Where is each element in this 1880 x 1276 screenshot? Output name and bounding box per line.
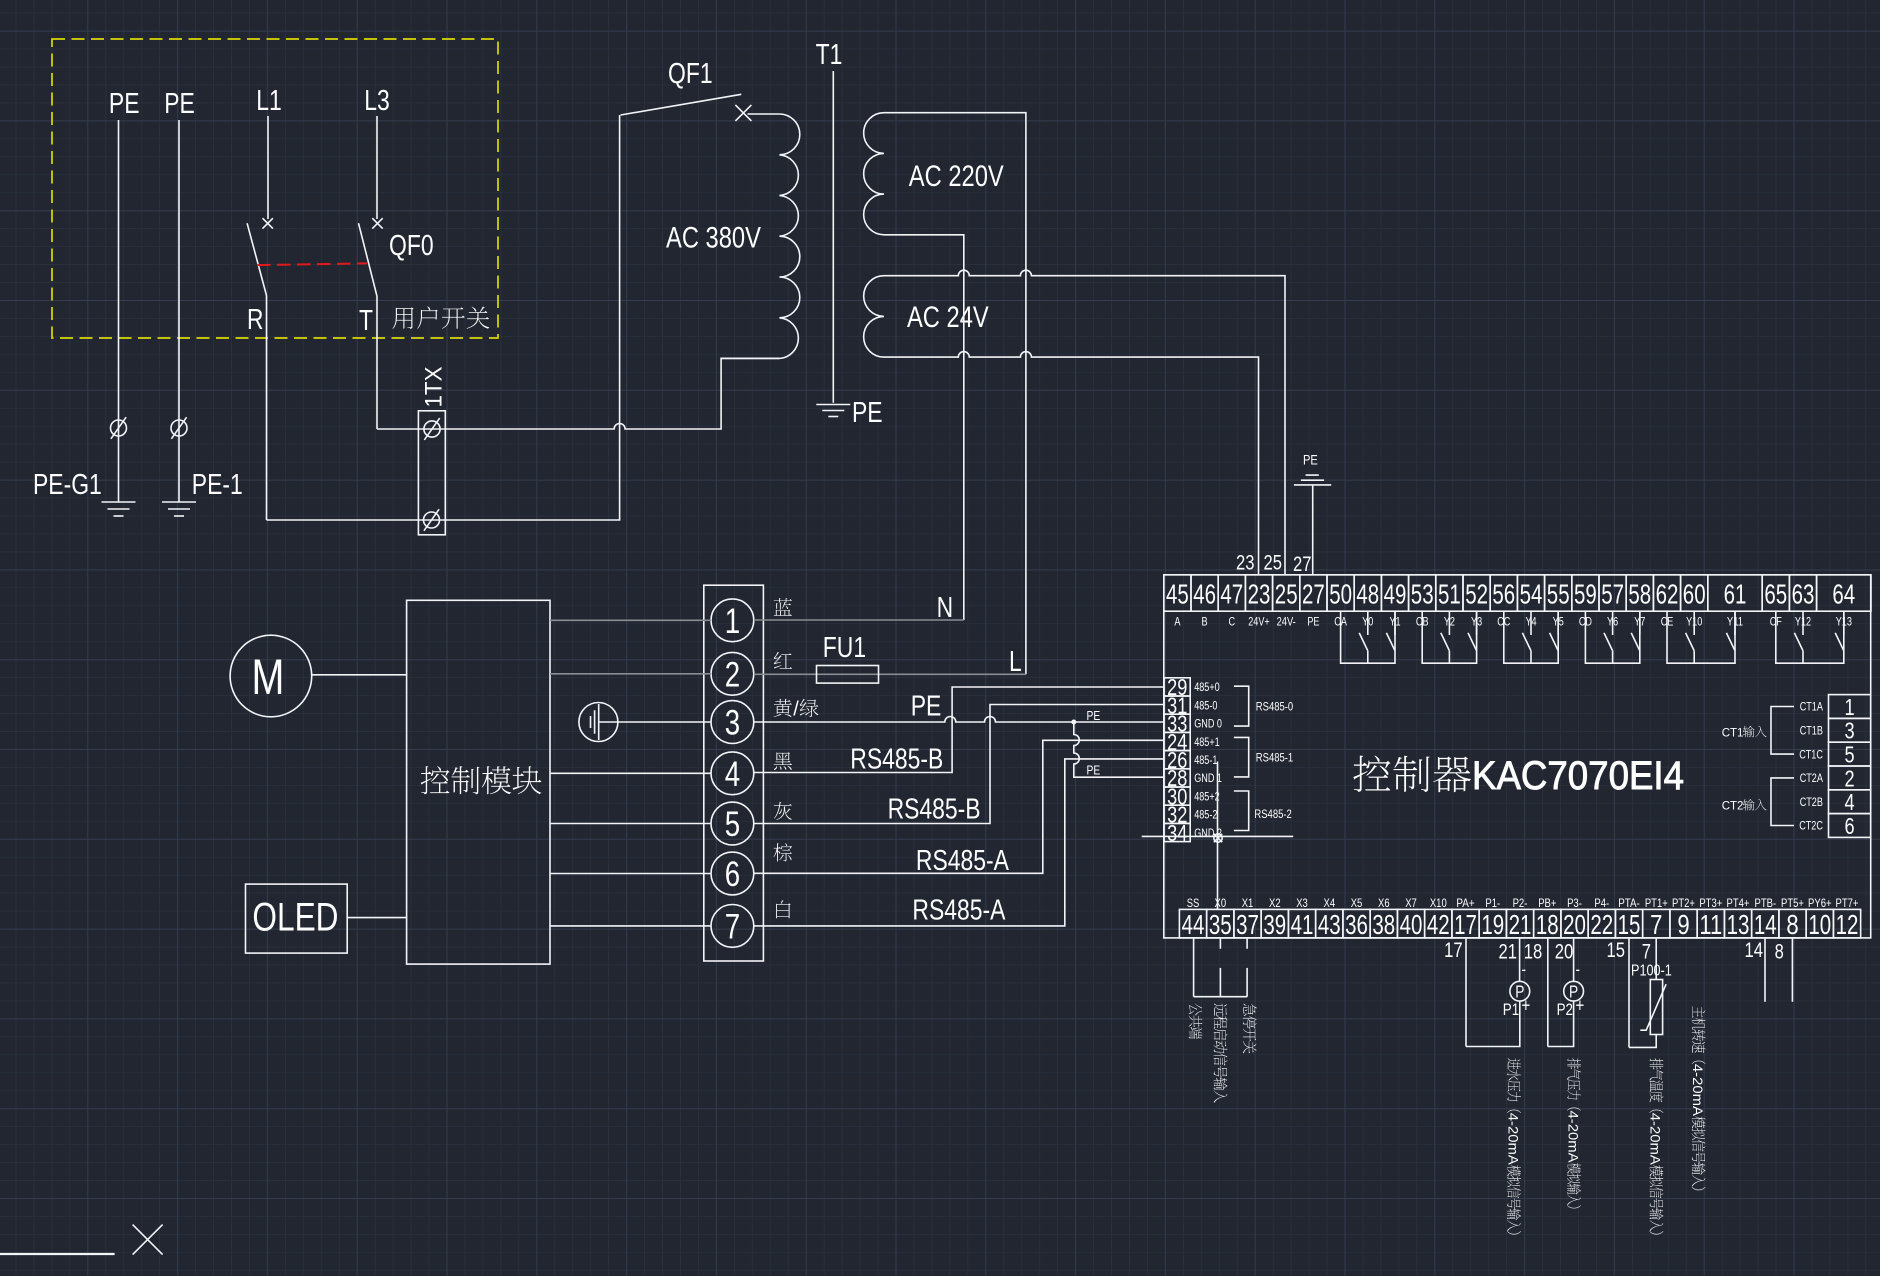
svg-text:19: 19: [1481, 909, 1504, 940]
wire 20 to P2 minus: [1573, 938, 1575, 981]
svg-text:PE: PE: [1307, 617, 1319, 629]
bracket RS485-1: [1234, 737, 1249, 777]
svg-text:PE: PE: [1087, 763, 1101, 778]
wire OLED to control module: [347, 917, 406, 919]
svg-text:AC 24V: AC 24V: [907, 301, 989, 334]
svg-text:A: A: [1174, 617, 1180, 629]
svg-text:PE-G1: PE-G1: [33, 469, 102, 501]
svg-text:X0: X0: [1215, 896, 1227, 910]
svg-text:SS: SS: [1187, 896, 1200, 910]
fuse FU1: [817, 666, 879, 684]
transformer T1 primary winding AC 380V: [779, 114, 799, 359]
wire digital input common: [1194, 996, 1248, 998]
svg-text:4-20mA: 4-20mA: [1648, 1113, 1664, 1166]
svg-text:QF1: QF1: [668, 58, 713, 90]
svg-text:CT2C: CT2C: [1799, 821, 1823, 833]
svg-text:4-20mA: 4-20mA: [1690, 1064, 1706, 1117]
wire GND2 to X0 cell: [1217, 762, 1219, 910]
svg-text:1: 1: [1845, 694, 1855, 720]
svg-text:PY6+: PY6+: [1808, 896, 1832, 910]
svg-text:M: M: [252, 649, 285, 705]
svg-text:4: 4: [1845, 789, 1855, 815]
relay contact group CE-Y10-Y11: [1667, 611, 1735, 663]
svg-text:RS485-2: RS485-2: [1254, 807, 1292, 821]
svg-text:23: 23: [1248, 578, 1271, 609]
wire L3 drop: [376, 116, 378, 219]
svg-text:15: 15: [1607, 939, 1626, 962]
wire AC24V bottom to controller 23: [884, 352, 1259, 575]
svg-text:55: 55: [1547, 578, 1570, 609]
svg-text:B: B: [1202, 617, 1208, 629]
svg-text:PA+: PA+: [1456, 896, 1474, 910]
ground PE-1: [162, 501, 196, 503]
control module box: [407, 600, 550, 964]
svg-text:PT4+: PT4+: [1727, 896, 1750, 910]
svg-text:47: 47: [1220, 578, 1243, 609]
breaker QF0 pole R contact: [263, 218, 273, 228]
svg-text:17: 17: [1444, 939, 1463, 962]
svg-text:+: +: [1576, 996, 1585, 1017]
svg-text:27: 27: [1293, 553, 1312, 576]
terminal 6 circle: [711, 852, 754, 895]
breaker QF0 pole T contact: [372, 218, 382, 228]
svg-text:485+1: 485+1: [1194, 737, 1220, 749]
svg-text:20: 20: [1563, 909, 1586, 940]
svg-text:6: 6: [1845, 813, 1855, 839]
ground T1 PE: [816, 404, 850, 406]
svg-text:C: C: [1229, 617, 1236, 629]
label 公共端 (vertical): [1189, 1003, 1203, 1039]
svg-text:X6: X6: [1378, 896, 1390, 910]
wire R drop: [266, 296, 268, 521]
svg-text:61: 61: [1724, 578, 1747, 609]
wire L (terminal 2 through fuse): [754, 673, 1026, 675]
wire primary bottom return: [721, 358, 779, 360]
pressure sensor P2: [1564, 981, 1584, 1001]
wire PB+ (18) drop: [1547, 938, 1549, 1047]
svg-text:18: 18: [1536, 909, 1559, 940]
wire control module to terminal 1: [550, 619, 711, 621]
svg-text:X4: X4: [1324, 896, 1336, 910]
terminal symbol on PE-1 wire: [171, 420, 187, 436]
svg-text:KAC7070EI4: KAC7070EI4: [1472, 754, 1684, 798]
wire control module to terminal 2: [550, 673, 711, 675]
wire QF1 to primary coil: [748, 113, 780, 115]
svg-text:11: 11: [1699, 909, 1722, 940]
transformer T1 core: [832, 71, 834, 403]
wire PTA- (15) drop: [1628, 938, 1630, 1048]
wire motor to control module: [312, 674, 407, 676]
svg-text:PE: PE: [852, 397, 883, 429]
svg-text:59: 59: [1574, 578, 1597, 609]
svg-text:14: 14: [1754, 909, 1777, 940]
wire 21 to P1 minus: [1519, 938, 1521, 981]
svg-text:X3: X3: [1296, 896, 1308, 910]
svg-text:PE: PE: [164, 88, 195, 120]
ground symbol above controller (inverted): [1294, 475, 1331, 485]
svg-text:14: 14: [1745, 939, 1764, 962]
svg-text:CT1C: CT1C: [1799, 749, 1823, 761]
svg-text:RS485-0: RS485-0: [1256, 700, 1294, 714]
label 黄/绿: [774, 699, 792, 717]
svg-text:485-0: 485-0: [1194, 700, 1217, 712]
svg-text:7: 7: [725, 908, 740, 947]
svg-text:3: 3: [725, 704, 740, 743]
terminal XT1-1 symbol: [424, 421, 440, 437]
wire terminal 6 to pin 24 (485+1): [754, 740, 1164, 873]
svg-text:485-2: 485-2: [1194, 810, 1217, 822]
ground PE-G1: [102, 501, 136, 503]
wire terminal 5 to pin 31 (485-0): [754, 705, 1164, 824]
svg-text:485+0: 485+0: [1194, 682, 1220, 694]
svg-text:AC 220V: AC 220V: [909, 160, 1004, 193]
terminal strip outline: [704, 585, 764, 961]
svg-text:15: 15: [1618, 909, 1641, 940]
label 红: [774, 652, 792, 669]
terminal XT1-2 symbol: [424, 512, 440, 528]
protective earth symbol at terminal 3: [579, 703, 618, 742]
label 控制模块: [421, 766, 450, 794]
svg-text:PTA-: PTA-: [1618, 896, 1640, 910]
relay contact group CA-Y0-Y1: [1341, 611, 1395, 663]
svg-text:P1-: P1-: [1485, 896, 1500, 910]
label 蓝: [774, 598, 792, 616]
svg-text:8: 8: [1775, 941, 1784, 964]
bracket CT1: [1771, 707, 1794, 755]
svg-text:2: 2: [1845, 765, 1855, 791]
svg-text:58: 58: [1628, 578, 1651, 609]
label 棕: [774, 843, 793, 861]
cursor cross: [133, 1225, 163, 1255]
wire L1 drop: [267, 116, 269, 219]
svg-text:RS485-B: RS485-B: [888, 794, 981, 826]
wire PT1+ (7) to RTD: [1655, 938, 1657, 980]
svg-text:FU1: FU1: [823, 632, 866, 664]
terminal 1 circle: [711, 599, 754, 642]
svg-text:45: 45: [1166, 578, 1189, 609]
svg-text:24V-: 24V-: [1277, 617, 1296, 629]
svg-text:X1: X1: [1242, 896, 1254, 910]
wire PA+ (17) drop: [1465, 938, 1467, 1047]
junction dot on PE wire: [1071, 720, 1076, 725]
relay contact group CD-Y6-Y7: [1585, 611, 1639, 663]
svg-text:49: 49: [1384, 578, 1407, 609]
svg-text:OLED: OLED: [252, 896, 338, 940]
controller KAC7070EI4 box: [1164, 575, 1871, 938]
svg-text:/: /: [793, 699, 799, 721]
svg-text:PT2+: PT2+: [1672, 896, 1695, 910]
wire AC220V bottom tap to N drop: [884, 235, 964, 620]
svg-text:44: 44: [1182, 909, 1205, 940]
node GND2 (circled X): [1214, 834, 1222, 842]
svg-text:9: 9: [1677, 909, 1689, 940]
svg-text:4-20mA: 4-20mA: [1505, 1113, 1521, 1166]
svg-text:N: N: [937, 592, 954, 624]
motor M circle: [230, 635, 312, 717]
breaker QF0 mechanical link (red dashed): [257, 263, 367, 265]
svg-text:10: 10: [1808, 909, 1831, 940]
transformer T1 secondary winding AC 24V: [864, 276, 884, 357]
svg-text:50: 50: [1329, 578, 1352, 609]
svg-text:20: 20: [1555, 941, 1574, 964]
wire PE-1 vertical: [178, 120, 180, 502]
wire control module to terminal 4: [550, 772, 711, 774]
svg-text:CT1B: CT1B: [1800, 726, 1823, 738]
svg-text:37: 37: [1236, 909, 1259, 940]
wire GND2 stub: [1142, 835, 1294, 837]
terminal 2 circle: [711, 652, 754, 695]
wire AC24V top to controller 25: [884, 270, 1285, 574]
svg-text:48: 48: [1356, 578, 1379, 609]
wire AC220V top to L drop: [884, 113, 1026, 675]
svg-text:63: 63: [1792, 578, 1815, 609]
bracket CT2: [1771, 778, 1794, 826]
svg-text:7: 7: [1650, 909, 1662, 940]
terminal symbol on PE-G1 wire: [111, 420, 127, 436]
axis line: [0, 1253, 115, 1255]
svg-text:PE: PE: [109, 88, 140, 120]
svg-text:P4-: P4-: [1594, 896, 1609, 910]
terminal block XT1 outline: [418, 411, 445, 535]
svg-text:43: 43: [1318, 909, 1341, 940]
svg-text:PT7+: PT7+: [1836, 896, 1859, 910]
svg-text:P1: P1: [1503, 1000, 1519, 1019]
svg-text:RS485-A: RS485-A: [916, 845, 1010, 877]
svg-text:L1: L1: [256, 85, 282, 117]
wire N (terminal 1 to AC220V tap): [754, 619, 964, 621]
label 白: [776, 900, 791, 918]
label 急停开关 (vertical): [1243, 1004, 1257, 1054]
wire XT1 top feed (T to transformer primary): [377, 358, 779, 429]
svg-text:485+2: 485+2: [1194, 791, 1220, 803]
wire control module to terminal 6: [550, 873, 711, 875]
label 控制器KAC7070EI4: [1353, 754, 1684, 798]
wire PE-G1 vertical: [118, 120, 120, 502]
terminal 7 circle: [711, 905, 754, 948]
svg-text:3: 3: [1845, 718, 1855, 744]
label 灰: [774, 802, 792, 820]
bracket RS485-0: [1234, 686, 1249, 726]
svg-text:25: 25: [1275, 578, 1298, 609]
wire terminal 7 to pin 26 (485-1): [754, 759, 1164, 926]
svg-text:RS485-B: RS485-B: [850, 744, 943, 776]
svg-text:42: 42: [1427, 909, 1450, 940]
svg-text:21: 21: [1509, 909, 1532, 940]
terminal 5 circle: [711, 802, 754, 845]
svg-text:5: 5: [725, 805, 740, 844]
wire RTD to PTA-: [1629, 1035, 1656, 1048]
svg-text:PE-1: PE-1: [192, 469, 243, 501]
svg-text:17: 17: [1454, 909, 1477, 940]
svg-text:QF0: QF0: [389, 230, 434, 262]
OLED box: [246, 884, 348, 953]
svg-text:51: 51: [1438, 578, 1461, 609]
svg-text:56: 56: [1492, 578, 1515, 609]
svg-text:-: -: [1576, 960, 1581, 979]
svg-text:62: 62: [1656, 578, 1679, 609]
wire X0 (35) contact: [1219, 938, 1221, 997]
svg-text:25: 25: [1264, 552, 1283, 575]
label 远程启动信号输入 (vertical): [1214, 1003, 1228, 1102]
label 黑: [774, 752, 792, 770]
wire X1 (37) contact: [1246, 938, 1248, 997]
RTD P100-1 body: [1650, 980, 1662, 1035]
svg-text:CT2: CT2: [1722, 801, 1744, 813]
svg-text:60: 60: [1683, 578, 1706, 609]
svg-text:P100-1: P100-1: [1631, 963, 1672, 980]
relay contact group CC-Y4-Y5: [1504, 611, 1558, 663]
wire P2 plus to PB+: [1548, 1001, 1574, 1046]
svg-text:34: 34: [1167, 820, 1187, 846]
relay contact group CF-Y12-Y13: [1776, 611, 1844, 663]
svg-text:38: 38: [1372, 909, 1395, 940]
terminal 3 circle: [711, 701, 754, 744]
pressure sensor P1: [1510, 981, 1530, 1001]
svg-text:PT5+: PT5+: [1781, 896, 1804, 910]
svg-text:PE: PE: [911, 691, 942, 723]
svg-text:GND 0: GND 0: [1194, 719, 1222, 731]
svg-text:39: 39: [1263, 909, 1286, 940]
label 排气温度 (vertical): [1648, 1058, 1664, 1234]
wire SS (44) drop: [1193, 938, 1195, 997]
svg-text:4: 4: [725, 755, 740, 794]
wire PE ground to controller 27: [1312, 485, 1314, 575]
svg-text:L: L: [1009, 646, 1022, 678]
CT terminal cells: [1829, 695, 1871, 719]
svg-text:2: 2: [725, 655, 740, 694]
label 排气压力 (vertical): [1565, 1058, 1581, 1208]
svg-text:35: 35: [1209, 909, 1232, 940]
wire PTB- (14) drop: [1764, 938, 1766, 1002]
controller bottom terminal row: [1179, 909, 1206, 938]
svg-text:PT3+: PT3+: [1699, 896, 1722, 910]
svg-text:CT2B: CT2B: [1800, 797, 1823, 809]
svg-text:485-1: 485-1: [1194, 755, 1217, 767]
svg-text:5: 5: [1845, 742, 1855, 768]
breaker QF1 blade: [621, 94, 742, 115]
svg-text:PE: PE: [1303, 452, 1318, 468]
svg-text:23: 23: [1236, 552, 1255, 575]
svg-text:CT1A: CT1A: [1800, 702, 1823, 714]
svg-text:AC 380V: AC 380V: [666, 222, 761, 255]
svg-text:P2: P2: [1557, 1000, 1573, 1019]
transformer T1 secondary winding AC 220V: [864, 113, 884, 235]
label 主机转速 (vertical): [1690, 1006, 1706, 1190]
svg-text:6: 6: [725, 855, 740, 894]
svg-text:CT1: CT1: [1722, 727, 1744, 739]
svg-text:18: 18: [1524, 941, 1543, 964]
breaker QF1 contact: [735, 105, 751, 121]
svg-text:12: 12: [1836, 909, 1859, 940]
svg-text:65: 65: [1764, 578, 1787, 609]
svg-text:P2-: P2-: [1513, 896, 1528, 910]
wire P1 plus to PA+: [1466, 1001, 1520, 1046]
wire terminal 3 PE to pin 33: [754, 717, 1164, 722]
wire PE branch to pin 28: [1074, 722, 1164, 777]
svg-text:1: 1: [725, 602, 740, 641]
wire XT1 bottom feed (R to QF1): [267, 115, 620, 520]
svg-text:8: 8: [1786, 909, 1798, 940]
svg-text:40: 40: [1400, 909, 1423, 940]
svg-text:36: 36: [1345, 909, 1368, 940]
wire terminal 4 to pin 29 (485+0): [754, 687, 1164, 773]
svg-text:P3-: P3-: [1567, 896, 1582, 910]
RS485 pin cells 29-34: [1164, 678, 1190, 696]
svg-text:X5: X5: [1351, 896, 1363, 910]
label 用户开关: [393, 307, 414, 328]
svg-text:22: 22: [1590, 909, 1613, 940]
svg-text:54: 54: [1520, 578, 1543, 609]
svg-text:R: R: [247, 304, 264, 336]
svg-text:13: 13: [1727, 909, 1750, 940]
svg-text:T: T: [359, 305, 373, 337]
svg-text:+: +: [1522, 996, 1531, 1017]
bracket RS485-2: [1234, 791, 1249, 831]
svg-text:52: 52: [1465, 578, 1488, 609]
svg-text:46: 46: [1193, 578, 1216, 609]
svg-text:X7: X7: [1405, 896, 1417, 910]
svg-text:41: 41: [1291, 909, 1314, 940]
svg-text:PTB-: PTB-: [1755, 896, 1777, 910]
svg-text:64: 64: [1832, 578, 1855, 609]
user switch enclosure (yellow dashed): [52, 39, 498, 338]
terminal 4 circle: [711, 752, 754, 795]
svg-text:57: 57: [1601, 578, 1624, 609]
svg-text:PB+: PB+: [1538, 896, 1556, 910]
svg-text:27: 27: [1302, 578, 1325, 609]
svg-text:PT1+: PT1+: [1645, 896, 1668, 910]
wire T drop: [376, 296, 378, 430]
svg-text:X10: X10: [1430, 896, 1447, 910]
svg-text:RS485-A: RS485-A: [912, 895, 1006, 927]
svg-text:PE: PE: [1087, 708, 1101, 723]
wire control module to terminal 5: [550, 823, 711, 825]
wire control module to terminal 7: [550, 925, 711, 927]
svg-text:X2: X2: [1269, 896, 1281, 910]
svg-text:L3: L3: [364, 85, 390, 117]
RTD P100-1 diagonal: [1640, 984, 1666, 1030]
svg-text:4-20mA: 4-20mA: [1565, 1111, 1581, 1164]
svg-text:RS485-1: RS485-1: [1256, 751, 1294, 765]
svg-text:1TX: 1TX: [421, 367, 448, 408]
svg-text:24V+: 24V+: [1248, 617, 1270, 629]
wire PT5+ (8) drop: [1791, 938, 1793, 1002]
label 进水压力 (vertical): [1505, 1058, 1521, 1234]
breaker QF0 pole R blade: [247, 223, 266, 295]
svg-text:CT2A: CT2A: [1800, 773, 1823, 785]
controller top terminal row: [1164, 575, 1191, 611]
svg-text:53: 53: [1411, 578, 1434, 609]
svg-text:21: 21: [1499, 941, 1518, 964]
relay contact group CB-Y2-Y3: [1422, 611, 1476, 663]
svg-text:7: 7: [1642, 941, 1651, 964]
breaker QF0 pole T blade: [359, 223, 377, 295]
svg-text:T1: T1: [816, 39, 843, 71]
